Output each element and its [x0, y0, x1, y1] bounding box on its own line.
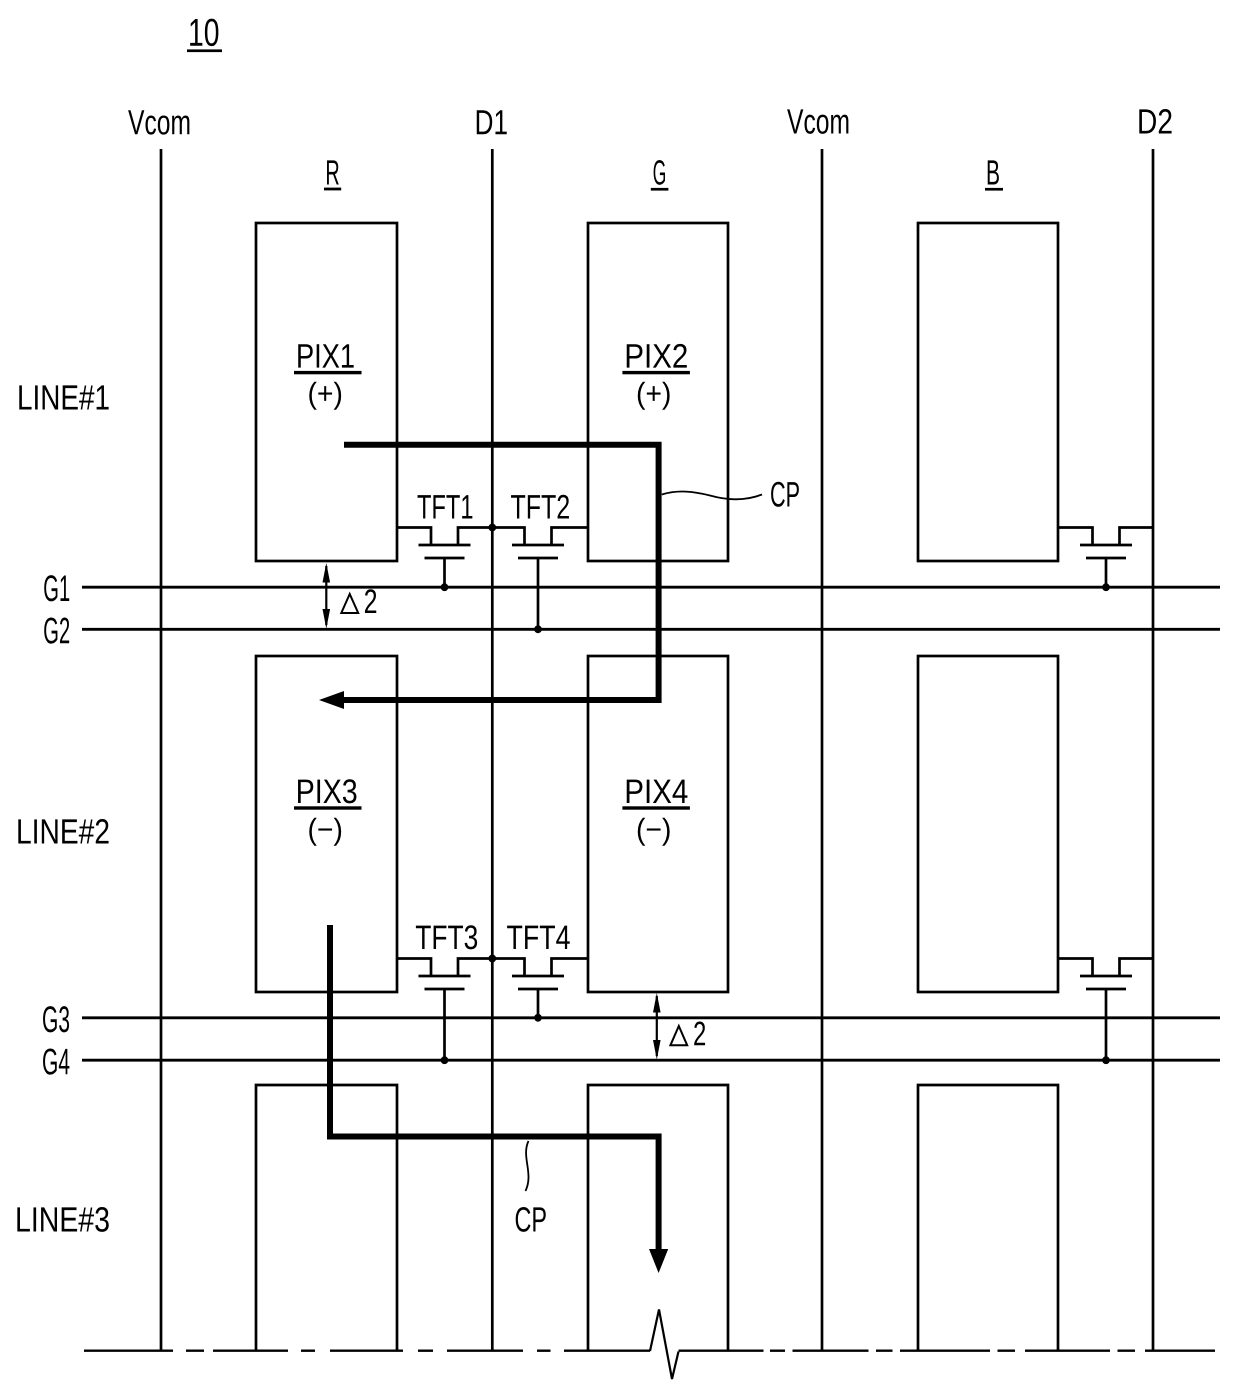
transistor TFT1	[397, 528, 492, 588]
transistor B column LINE#1	[1058, 528, 1153, 588]
wire gate line G4	[82, 1059, 1220, 1062]
dimension arrow delta-2 upper	[323, 563, 331, 629]
wire gate line G1	[82, 586, 1220, 589]
pixel electrode R rect LINE#3	[256, 1085, 397, 1351]
wire Vcom line left	[160, 149, 163, 1351]
label PIX3 (-)	[294, 779, 362, 845]
wire D2 data line	[1152, 149, 1155, 1351]
row label LINE#1	[19, 385, 108, 409]
junction dot D1 node LINE#1	[488, 524, 496, 532]
junction dot TFT3 gate on G4	[441, 1056, 449, 1064]
label TFT3	[416, 925, 477, 949]
net label Vcom (left)	[128, 110, 189, 134]
row label LINE#2	[18, 819, 108, 843]
transistor TFT2	[492, 528, 588, 630]
leader line CP lower	[526, 1141, 529, 1191]
dimension arrow delta-2 lower	[653, 993, 661, 1060]
junction dot TFT4 gate on G3	[534, 1014, 542, 1022]
junction dot B transistor gate on G1	[1102, 583, 1110, 591]
junction dot TFT2 gate on G2	[534, 625, 542, 633]
coupling path CP upper (thick)	[319, 445, 659, 709]
net label D1	[477, 110, 507, 134]
wire gate line G3	[82, 1016, 1220, 1019]
net label G3	[43, 1006, 69, 1032]
column label R	[324, 160, 341, 190]
pixel electrode PIX4 rect	[588, 656, 728, 992]
transistor B column LINE#2	[1058, 959, 1153, 1061]
wire Vcom line right	[821, 149, 824, 1351]
junction dot D1 node LINE#2	[488, 955, 496, 963]
label delta-2 upper	[341, 589, 376, 613]
pixel electrode B rect LINE#1	[918, 223, 1058, 561]
label TFT4	[507, 926, 570, 949]
net label G2	[44, 617, 69, 643]
pixel electrode B rect LINE#3	[918, 1085, 1058, 1351]
junction dot B transistor gate on G4	[1102, 1056, 1110, 1064]
label CP lower	[516, 1207, 546, 1232]
dashed boundary line (bottom)	[84, 1349, 1215, 1351]
label PIX1 (+)	[294, 344, 362, 410]
transistor TFT3	[397, 959, 492, 1061]
label TFT1	[418, 495, 473, 518]
reference numeral 10	[187, 19, 222, 53]
label delta-2 lower	[670, 1022, 705, 1046]
pixel electrode PIX2 rect	[588, 223, 728, 561]
pixel electrode PIX1 rect	[256, 223, 397, 561]
row label LINE#3	[17, 1207, 108, 1232]
junction dot TFT1 gate on G1	[441, 583, 449, 591]
wire D1 data line	[491, 149, 494, 1351]
wire gate line G2	[82, 628, 1220, 631]
column label G	[651, 160, 669, 191]
pixel electrode PIX3 rect	[256, 656, 397, 992]
pixel electrode G rect LINE#3	[588, 1085, 728, 1351]
transistor TFT4	[492, 959, 588, 1018]
label PIX2 (+)	[622, 344, 690, 410]
label CP upper	[771, 482, 799, 507]
net label G1	[44, 575, 69, 601]
break symbol on boundary line	[650, 1310, 679, 1380]
net label Vcom (right)	[787, 109, 848, 133]
coupling path CP lower (thick)	[330, 925, 668, 1273]
label TFT2	[511, 495, 569, 519]
net label D2	[1139, 109, 1171, 133]
pixel electrode B rect LINE#2	[918, 656, 1058, 992]
leader line CP upper	[662, 492, 762, 500]
column label B	[985, 160, 1003, 190]
label PIX4 (-)	[622, 780, 690, 846]
net label G4	[43, 1048, 69, 1074]
